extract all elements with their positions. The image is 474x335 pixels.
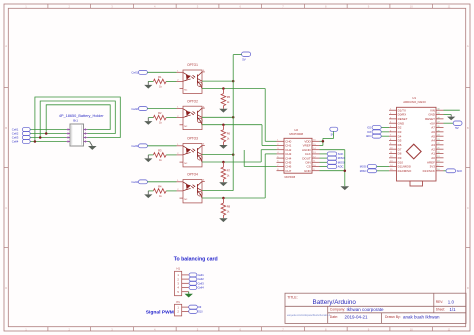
svg-text:D: D [5, 286, 7, 290]
svg-text:10: 10 [410, 327, 413, 331]
svg-text:IO2: IO2 [367, 127, 372, 130]
svg-text:R6: R6 [227, 131, 231, 135]
svg-text:Company:: Company: [330, 308, 346, 312]
svg-text:SCK: SCK [338, 152, 344, 156]
svg-text:1/1: 1/1 [450, 307, 457, 312]
svg-text:Cell2: Cell2 [131, 107, 138, 111]
svg-text:Cell3: Cell3 [198, 281, 205, 285]
svg-text:Cell4: Cell4 [198, 286, 205, 290]
svg-text:Signal PWM: Signal PWM [146, 309, 174, 315]
svg-text:IO3: IO3 [367, 131, 372, 134]
svg-text:11: 11 [448, 5, 451, 9]
svg-text:2019-04-21: 2019-04-21 [345, 314, 369, 319]
svg-text:NC: NC [184, 163, 188, 165]
svg-text:Cell3: Cell3 [131, 144, 138, 148]
svg-text:MCP3008: MCP3008 [285, 176, 296, 179]
svg-text:R4: R4 [158, 185, 162, 189]
svg-text:MOSI: MOSI [360, 164, 367, 168]
svg-text:Ikhwan coorporate: Ikhwan coorporate [347, 307, 385, 312]
svg-text:SCK: SCK [457, 169, 463, 173]
svg-text:MOSI: MOSI [338, 160, 345, 164]
svg-text:OPTO2: OPTO2 [187, 99, 198, 103]
svg-text:OPTO3: OPTO3 [187, 137, 198, 141]
svg-text:Date:: Date: [330, 315, 338, 319]
svg-text:D13/SCK: D13/SCK [423, 169, 435, 173]
svg-text:R7: R7 [227, 169, 231, 173]
svg-text:Battery/Arduino: Battery/Arduino [313, 299, 357, 306]
svg-text:A: A [467, 44, 469, 48]
svg-text:NC: NC [184, 199, 188, 201]
svg-text:TITLE:: TITLE: [287, 295, 298, 299]
svg-text:Cell1: Cell1 [131, 71, 138, 75]
svg-text:B: B [467, 126, 469, 130]
svg-text:CH7: CH7 [285, 169, 291, 173]
svg-text:easyeda.com/workspace/files/sc: easyeda.com/workspace/files/schematic-1 [287, 314, 331, 317]
svg-text:Drawn By:: Drawn By: [385, 315, 401, 319]
svg-text:10: 10 [410, 5, 413, 9]
svg-text:Cell1: Cell1 [198, 273, 205, 277]
svg-text:A: A [5, 44, 7, 48]
svg-text:NC: NC [184, 126, 188, 128]
svg-text:ADC: ADC [366, 135, 371, 138]
svg-text:NC: NC [184, 90, 188, 92]
svg-text:4P_18650_Battery_Holder: 4P_18650_Battery_Holder [59, 114, 104, 118]
svg-text:D: D [467, 286, 469, 290]
svg-text:Cell4: Cell4 [131, 180, 138, 184]
svg-text:R8: R8 [227, 205, 231, 209]
svg-text:C: C [467, 206, 469, 210]
svg-text:R1: R1 [158, 75, 162, 79]
svg-text:R3: R3 [158, 149, 162, 153]
svg-text:MISO: MISO [338, 156, 345, 160]
svg-text:REV:: REV: [436, 300, 443, 304]
svg-text:ARDUINO_NANO: ARDUINO_NANO [403, 100, 426, 104]
svg-text:Cell2: Cell2 [198, 277, 205, 281]
svg-text:P1: P1 [177, 300, 181, 304]
svg-text:Cell4: Cell4 [12, 140, 19, 144]
svg-text:Sheet:: Sheet: [436, 308, 445, 312]
svg-text:ADC: ADC [338, 165, 344, 169]
svg-text:B: B [5, 126, 7, 130]
svg-text:OPTO4: OPTO4 [187, 173, 198, 177]
svg-text:anak buah Ikhwan: anak buah Ikhwan [403, 314, 440, 319]
svg-text:R5: R5 [227, 95, 231, 99]
svg-text:OPTO1: OPTO1 [187, 63, 198, 67]
svg-text:5V: 5V [455, 126, 459, 130]
svg-text:D10: D10 [198, 311, 203, 314]
svg-text:1.0: 1.0 [448, 299, 455, 304]
svg-text:To balancing card: To balancing card [174, 256, 218, 262]
svg-text:R2: R2 [158, 111, 162, 115]
svg-text:D12/MISO: D12/MISO [398, 169, 412, 173]
svg-text:GND: GND [304, 169, 312, 173]
svg-text:MCP3008: MCP3008 [289, 132, 303, 136]
svg-text:Bt1: Bt1 [73, 119, 78, 123]
svg-text:11: 11 [448, 327, 451, 331]
svg-text:MISO: MISO [360, 169, 367, 173]
svg-text:C: C [5, 206, 7, 210]
svg-text:H1: H1 [177, 266, 181, 270]
svg-text:5V: 5V [242, 57, 246, 61]
